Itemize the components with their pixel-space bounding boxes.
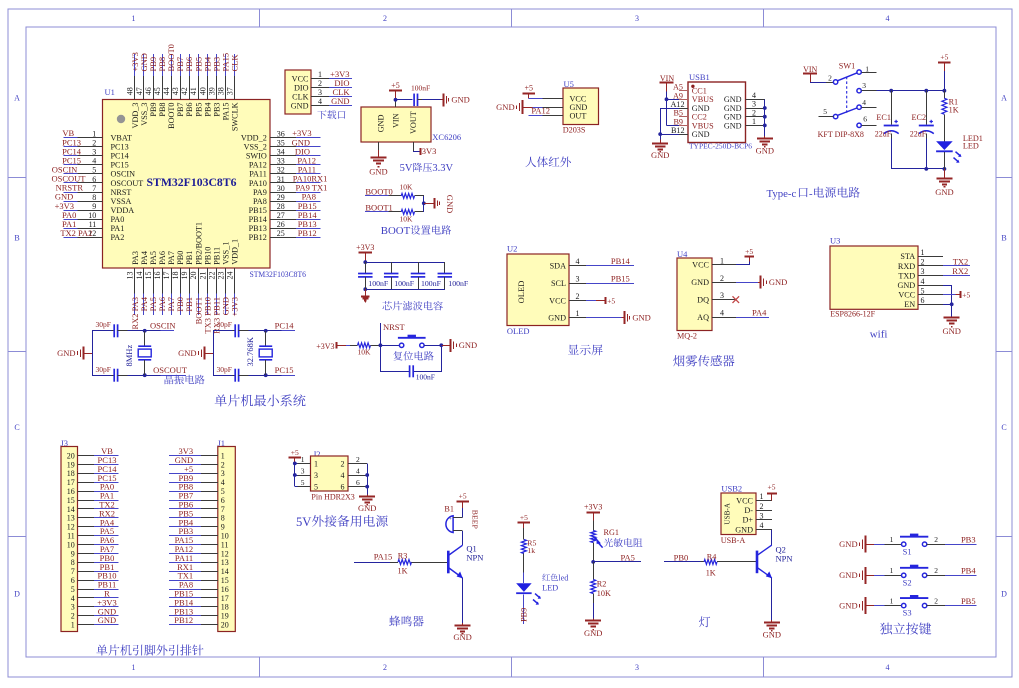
U1 pin 24 VDD_1 (net +3V3) xyxy=(234,268,236,294)
svg-text:17: 17 xyxy=(67,478,75,487)
svg-text:PB6: PB6 xyxy=(185,103,194,117)
net label PB9 rotated xyxy=(523,594,525,624)
USB2 pin 1 VCC line xyxy=(756,500,772,502)
svg-text:10K: 10K xyxy=(400,214,414,223)
U1 pin 19 PB1 (net PB1) xyxy=(189,268,191,294)
ground at U5 xyxy=(523,107,533,109)
svg-text:+5: +5 xyxy=(391,81,400,90)
svg-text:1: 1 xyxy=(221,451,225,460)
svg-text:39: 39 xyxy=(207,87,216,95)
svg-text:1: 1 xyxy=(92,129,96,138)
svg-text:45: 45 xyxy=(153,87,162,95)
svg-text:PB11: PB11 xyxy=(212,247,221,265)
svg-text:1: 1 xyxy=(752,117,756,126)
svg-text:25: 25 xyxy=(277,229,285,238)
svg-text:15: 15 xyxy=(67,496,75,505)
svg-text:1: 1 xyxy=(865,64,869,73)
svg-text:TX2 PA2: TX2 PA2 xyxy=(60,228,92,238)
svg-text:PB1: PB1 xyxy=(185,251,194,265)
caption crystal circuit xyxy=(165,375,174,384)
U1 pin 41 PB5 (net PB5) xyxy=(198,54,200,76)
svg-text:STM32F103C8T6: STM32F103C8T6 xyxy=(147,175,237,189)
caption MCU minimal system xyxy=(215,394,227,406)
svg-text:BOOT0: BOOT0 xyxy=(365,186,392,196)
svg-text:NPN: NPN xyxy=(776,553,793,563)
download port pin 4 (net GND) xyxy=(311,105,329,107)
svg-text:2: 2 xyxy=(341,459,345,468)
ground at S1 xyxy=(866,544,874,546)
ground crystal (32.768K block) xyxy=(205,353,214,355)
svg-text:PB12: PB12 xyxy=(249,233,267,242)
caption MCU breakout headers xyxy=(96,645,107,656)
svg-text:SCL: SCL xyxy=(551,279,566,288)
power +5 at XC6206 xyxy=(395,91,397,100)
svg-text:27: 27 xyxy=(277,211,285,220)
svg-text:6: 6 xyxy=(921,296,925,305)
svg-text:20: 20 xyxy=(221,621,229,630)
U1 pin 11 PA1 (net PA1) xyxy=(64,228,78,230)
wire switch to junction right xyxy=(424,345,441,347)
svg-text:22uF: 22uF xyxy=(910,130,927,139)
svg-text:6: 6 xyxy=(92,175,96,184)
svg-text:U1: U1 xyxy=(105,87,115,97)
svg-text:9: 9 xyxy=(71,549,75,558)
wire crystal top (32.768K block) xyxy=(213,330,233,332)
svg-text:+5: +5 xyxy=(745,247,753,256)
svg-text:+3V3: +3V3 xyxy=(356,243,374,252)
svg-text:NRST: NRST xyxy=(111,188,132,197)
svg-text:2: 2 xyxy=(760,502,764,511)
wire cap to gnd xyxy=(422,99,441,101)
power +5 at U3 xyxy=(943,294,956,296)
U1 pin 34 SWIO (net DIO) xyxy=(270,155,296,157)
U1 pin 42 PB6 (net PB6) xyxy=(189,54,191,76)
svg-text:3.3V: 3.3V xyxy=(432,163,453,174)
svg-text:OSCIN: OSCIN xyxy=(111,170,136,179)
capacitor EC1 22uF xyxy=(891,91,893,125)
svg-text:GND: GND xyxy=(291,101,309,110)
svg-text:3: 3 xyxy=(760,512,764,521)
U1 pin 36 VDD_2 (net +3V3) xyxy=(270,137,296,139)
svg-text:GND: GND xyxy=(377,114,386,132)
wire VIN to SW1 pin2 xyxy=(810,82,826,84)
svg-text:AQ: AQ xyxy=(697,313,709,322)
ground at J2 xyxy=(367,495,369,497)
svg-text:GND: GND xyxy=(178,348,196,358)
resistor R3 1K xyxy=(390,562,398,564)
svg-text:GND: GND xyxy=(651,150,669,160)
svg-text:19: 19 xyxy=(221,612,229,621)
svg-text:GND: GND xyxy=(942,326,960,336)
net label TX2 wifi xyxy=(943,265,970,267)
svg-text:GND: GND xyxy=(632,313,650,323)
svg-text:PA3: PA3 xyxy=(131,251,140,265)
svg-text:GND: GND xyxy=(691,278,709,287)
svg-text:XC6206: XC6206 xyxy=(432,132,461,142)
svg-text:3: 3 xyxy=(92,148,96,157)
U3 pin 5 VCC line xyxy=(918,294,943,296)
caption independent buttons xyxy=(880,623,892,635)
wire +5 to buzzer xyxy=(462,508,464,517)
svg-text:1k: 1k xyxy=(527,546,535,555)
wire gnd to GND pin xyxy=(533,107,543,109)
caption download port xyxy=(317,110,326,119)
svg-text:5: 5 xyxy=(92,166,96,175)
connector USB2 body xyxy=(721,493,756,535)
svg-text:15: 15 xyxy=(144,272,153,280)
wire net OSCOUT (8MHz block) xyxy=(145,375,161,377)
svg-text:VIN: VIN xyxy=(391,113,400,128)
wire +5 down to rail xyxy=(944,71,946,91)
svg-text:8: 8 xyxy=(92,193,96,202)
wire crystal left vertical (32.768K block) xyxy=(213,331,215,375)
svg-text:6: 6 xyxy=(71,576,75,585)
svg-text:STA: STA xyxy=(900,252,915,261)
svg-text:2: 2 xyxy=(383,663,387,672)
ground right of cap xyxy=(441,99,443,101)
caption human IR xyxy=(525,157,536,167)
wire net PC15 (32.768K block) xyxy=(266,375,282,377)
svg-text:7: 7 xyxy=(71,567,75,576)
node crystal bottom (8MHz block) xyxy=(143,373,147,377)
svg-text:100nF: 100nF xyxy=(421,279,442,288)
svg-text:11: 11 xyxy=(67,532,75,541)
svg-text:2: 2 xyxy=(576,292,580,301)
svg-text:3: 3 xyxy=(720,291,724,300)
net label PA15 xyxy=(354,562,390,564)
svg-text:1: 1 xyxy=(890,596,894,605)
svg-text:7: 7 xyxy=(92,184,96,193)
svg-text:PB9: PB9 xyxy=(520,608,529,622)
svg-text:5V: 5V xyxy=(296,515,311,529)
svg-text:B1: B1 xyxy=(444,505,454,514)
U1 pin 26 PB13 (net PB13) xyxy=(270,228,296,230)
svg-text:GND: GND xyxy=(451,95,469,105)
svg-text:10: 10 xyxy=(88,211,96,220)
svg-text:12: 12 xyxy=(221,549,229,558)
wire crystal bottom (32.768K block) xyxy=(213,375,233,377)
svg-text:PA9: PA9 xyxy=(253,188,267,197)
U1 pin 4 PC15 (net PC15) xyxy=(64,164,78,166)
svg-text:D: D xyxy=(14,590,20,599)
svg-text:RXD: RXD xyxy=(898,262,915,271)
svg-text:5V: 5V xyxy=(400,163,413,174)
net label NRST xyxy=(380,323,382,345)
power +5 red led xyxy=(523,523,525,528)
svg-text:GND: GND xyxy=(724,113,742,122)
svg-text:PB12: PB12 xyxy=(174,615,193,625)
svg-text:PA11: PA11 xyxy=(249,170,267,179)
svg-text:GND: GND xyxy=(897,281,915,290)
svg-text:GND: GND xyxy=(724,121,742,130)
svg-text:PA7: PA7 xyxy=(167,251,176,265)
svg-text:OSCOUT: OSCOUT xyxy=(153,365,188,375)
connector J2 body xyxy=(311,456,349,491)
svg-text:41: 41 xyxy=(189,87,198,95)
svg-text:PA0: PA0 xyxy=(111,215,125,224)
svg-text:13: 13 xyxy=(221,558,229,567)
svg-text:USB1: USB1 xyxy=(689,72,710,82)
U1 pin 20 PB2/BOOT1 (net BOOT1) xyxy=(198,268,200,294)
svg-text:4: 4 xyxy=(92,157,96,166)
U1 pin 2 PC13 (net PC13) xyxy=(64,146,78,148)
U2 pin 1 GND line xyxy=(569,317,586,319)
U1 pin 15 PA5 (net PA5) xyxy=(153,268,155,294)
capacitor C3 100nF xyxy=(418,262,420,273)
svg-text:+3V3: +3V3 xyxy=(584,502,602,511)
svg-text:PB0: PB0 xyxy=(674,552,689,562)
svg-text:2: 2 xyxy=(934,535,938,544)
resistor R-boot0 10K xyxy=(389,195,402,197)
svg-text:30: 30 xyxy=(277,184,285,193)
svg-text:5: 5 xyxy=(823,107,827,116)
svg-text:3: 3 xyxy=(314,471,318,480)
svg-text:S2: S2 xyxy=(903,577,912,587)
U1 pin 29 PA8 (net PA8) xyxy=(270,201,296,203)
svg-text:4: 4 xyxy=(760,521,764,530)
svg-text:33: 33 xyxy=(277,157,285,166)
U1 pin 32 PA11 (net PA11) xyxy=(270,173,296,175)
svg-text:VSS_2: VSS_2 xyxy=(244,142,267,151)
svg-text:PB4: PB4 xyxy=(961,566,976,576)
svg-text:VOUT: VOUT xyxy=(409,111,418,134)
U1 pin 12 PA2 (net TX2 PA2) xyxy=(64,237,78,239)
svg-text:2: 2 xyxy=(71,612,75,621)
svg-text:3: 3 xyxy=(71,603,75,612)
U1 pin 25 PB12 (net PB12) xyxy=(270,237,296,239)
svg-text:1: 1 xyxy=(132,14,136,23)
svg-text:46: 46 xyxy=(144,87,153,95)
svg-text:4: 4 xyxy=(341,471,345,480)
svg-text:4: 4 xyxy=(71,594,75,603)
svg-text:3: 3 xyxy=(752,100,756,109)
svg-text:32: 32 xyxy=(277,166,285,175)
power +5 at U5 xyxy=(528,93,530,99)
svg-text:OSCOUT: OSCOUT xyxy=(111,179,144,188)
ground at S2 xyxy=(866,575,874,577)
wire GND pin4 over xyxy=(943,285,952,287)
ground below XC6206 xyxy=(378,150,380,158)
svg-text:15: 15 xyxy=(221,576,229,585)
svg-text:17: 17 xyxy=(221,594,229,603)
svg-text:PB5: PB5 xyxy=(194,103,203,117)
svg-text:D-: D- xyxy=(744,506,753,515)
ground below USB1 right xyxy=(764,136,766,138)
svg-text:VSSA: VSSA xyxy=(111,197,132,206)
svg-text:2: 2 xyxy=(318,79,322,88)
svg-text:PB5: PB5 xyxy=(961,596,976,606)
svg-text:100nF: 100nF xyxy=(394,279,415,288)
ground filter caps xyxy=(365,289,367,297)
svg-text:D: D xyxy=(1001,590,1007,599)
svg-text:VCC: VCC xyxy=(898,291,915,300)
wire Q1 emitter down xyxy=(462,578,464,623)
svg-text:PA4: PA4 xyxy=(140,251,149,265)
U1 pin 44 BOOT0 (net BOOT0) xyxy=(171,54,173,76)
capacitor EC2 22uF xyxy=(926,91,928,125)
svg-text:+5: +5 xyxy=(607,296,615,305)
svg-text:OUT: OUT xyxy=(570,112,587,121)
svg-text:TXD: TXD xyxy=(898,271,915,280)
caption smoke sensor xyxy=(673,355,684,366)
node reset junction left xyxy=(379,343,383,347)
svg-text:1: 1 xyxy=(301,455,305,464)
wire gnd to button xyxy=(874,605,884,607)
svg-text:30pF: 30pF xyxy=(95,320,110,329)
svg-text:14: 14 xyxy=(221,567,229,576)
svg-text:19: 19 xyxy=(67,460,75,469)
svg-text:1: 1 xyxy=(890,566,894,575)
svg-text:4: 4 xyxy=(886,14,890,23)
regulator XC6206 body xyxy=(361,107,431,142)
svg-text:VDD_1: VDD_1 xyxy=(231,239,240,265)
svg-text:LED: LED xyxy=(542,584,558,593)
svg-text:2: 2 xyxy=(934,566,938,575)
svg-text:USB-A: USB-A xyxy=(721,536,746,545)
node reset junction right xyxy=(439,343,443,347)
svg-text:PB14: PB14 xyxy=(611,256,631,266)
U3 pin 4 GND line xyxy=(918,285,943,287)
node crystal bottom (32.768K block) xyxy=(264,373,268,377)
svg-text:GND: GND xyxy=(692,104,710,113)
svg-text:+5: +5 xyxy=(291,448,299,457)
resistor R5 1k xyxy=(523,528,525,540)
diode red LED xyxy=(516,583,532,592)
resistor R4 1K xyxy=(701,561,705,563)
U4 pin 4 AQ line xyxy=(712,317,736,319)
svg-text:TYPEC-250D-BCP6: TYPEC-250D-BCP6 xyxy=(689,142,752,151)
svg-text:32.768K: 32.768K xyxy=(245,336,255,366)
transistor Q2 NPN xyxy=(756,551,759,574)
svg-text:2: 2 xyxy=(92,138,96,147)
svg-text:16: 16 xyxy=(153,272,162,280)
svg-text:3V3: 3V3 xyxy=(422,146,437,156)
svg-text:GND: GND xyxy=(724,104,742,113)
svg-text:PA12: PA12 xyxy=(249,161,267,170)
U5 pin VCC xyxy=(542,98,563,100)
svg-text:3: 3 xyxy=(635,14,639,23)
sensor U4 body xyxy=(677,258,712,331)
svg-text:2: 2 xyxy=(720,274,724,283)
svg-text:PC15: PC15 xyxy=(275,365,294,375)
capacitor C4 100nF xyxy=(444,262,446,273)
svg-text:29: 29 xyxy=(277,193,285,202)
U1 pin 7 NRST (net NRSTR) xyxy=(64,192,78,194)
svg-text:4: 4 xyxy=(921,277,925,286)
svg-text:30pF: 30pF xyxy=(216,365,231,374)
U1 pin 45 PB8 (net PB8) xyxy=(162,54,164,76)
svg-text:44: 44 xyxy=(162,87,171,95)
svg-text:GND: GND xyxy=(839,570,857,580)
net label PA5 xyxy=(593,561,641,563)
wire VIN to VBUS pins xyxy=(666,92,668,126)
no-connect X on DQ xyxy=(733,296,740,303)
capacitor 100nF at XC6206 xyxy=(413,94,415,107)
svg-text:10K: 10K xyxy=(400,182,414,191)
svg-text:31: 31 xyxy=(277,175,285,184)
net label PB15 xyxy=(586,283,634,285)
svg-text:BEEP: BEEP xyxy=(471,510,480,530)
U1 pin 39 PB3 (net PB3) xyxy=(216,54,218,76)
svg-text:SDA: SDA xyxy=(550,261,566,270)
svg-text:B: B xyxy=(14,234,19,243)
svg-text:OLED: OLED xyxy=(516,281,526,304)
svg-text:28: 28 xyxy=(277,202,285,211)
svg-text:5: 5 xyxy=(921,286,925,295)
J2 pin 5 left xyxy=(297,486,310,488)
svg-text:8MHz: 8MHz xyxy=(124,345,134,367)
connector J1 body xyxy=(218,447,236,632)
wire to R reset xyxy=(346,345,350,347)
U3 pin 1 STA line xyxy=(918,256,943,258)
U1 pin 38 PA15 (net PA15) xyxy=(225,54,227,76)
U5 pin GND xyxy=(542,107,563,109)
USB2 pin 3 D+ line xyxy=(756,519,772,521)
connector J3 body xyxy=(61,447,78,632)
power +5 buzzer xyxy=(462,501,464,508)
svg-text:RG1: RG1 xyxy=(604,528,619,537)
svg-text:SW1: SW1 xyxy=(839,61,855,70)
svg-text:C: C xyxy=(14,423,19,432)
wire GND pins A12 B12 xyxy=(660,108,679,110)
node VIN junction xyxy=(394,98,398,102)
svg-text:RX2: RX2 xyxy=(952,266,968,276)
wire Q2 collector to USB2 xyxy=(771,529,773,545)
U4 pin 3 DQ line xyxy=(712,299,736,301)
svg-text:OSCIN: OSCIN xyxy=(150,321,176,331)
svg-text:10K: 10K xyxy=(358,347,372,356)
svg-text:3: 3 xyxy=(576,275,580,284)
svg-text:led: led xyxy=(558,574,568,583)
svg-text:GND: GND xyxy=(584,628,602,638)
J2 pin 2 right xyxy=(348,463,367,465)
download port pin 2 (net DIO) xyxy=(311,87,329,89)
svg-text:42: 42 xyxy=(180,87,189,95)
svg-text:30pF: 30pF xyxy=(95,365,110,374)
U1 pin 8 VSSA (net GND) xyxy=(64,201,78,203)
svg-text:NRST: NRST xyxy=(383,322,406,332)
svg-text:34: 34 xyxy=(277,148,285,157)
svg-text:PA2: PA2 xyxy=(111,233,125,242)
svg-text:+5: +5 xyxy=(768,482,776,491)
svg-text:11: 11 xyxy=(221,540,229,549)
svg-text:4: 4 xyxy=(221,478,225,487)
ground crystal (8MHz block) xyxy=(84,353,93,355)
U1 pin 30 PA9 (net PA9 TX1) xyxy=(270,192,296,194)
node boot junction xyxy=(422,201,426,205)
net label PB14 xyxy=(586,265,634,267)
svg-text:PB7: PB7 xyxy=(176,103,185,117)
power +5 type-c xyxy=(944,62,946,71)
svg-text:6: 6 xyxy=(863,115,867,124)
svg-text:PC15: PC15 xyxy=(111,161,129,170)
svg-text:D203S: D203S xyxy=(563,125,586,134)
node crystal top (8MHz block) xyxy=(143,329,147,333)
svg-text:CC2: CC2 xyxy=(692,113,707,122)
U1 pin 3 PC14 (net PC14) xyxy=(64,155,78,157)
svg-text:16: 16 xyxy=(221,585,229,594)
U2 pin 4 SDA line xyxy=(569,265,586,267)
wire J2 right bus xyxy=(367,463,369,494)
wire J2 left bus xyxy=(294,463,296,486)
svg-text:PC13: PC13 xyxy=(111,142,129,151)
svg-text:U3: U3 xyxy=(830,236,840,246)
svg-text:9: 9 xyxy=(92,202,96,211)
svg-text:5: 5 xyxy=(71,585,75,594)
ground lamp xyxy=(771,620,773,622)
svg-text:R2: R2 xyxy=(597,580,607,589)
svg-text:PB14: PB14 xyxy=(249,215,267,224)
